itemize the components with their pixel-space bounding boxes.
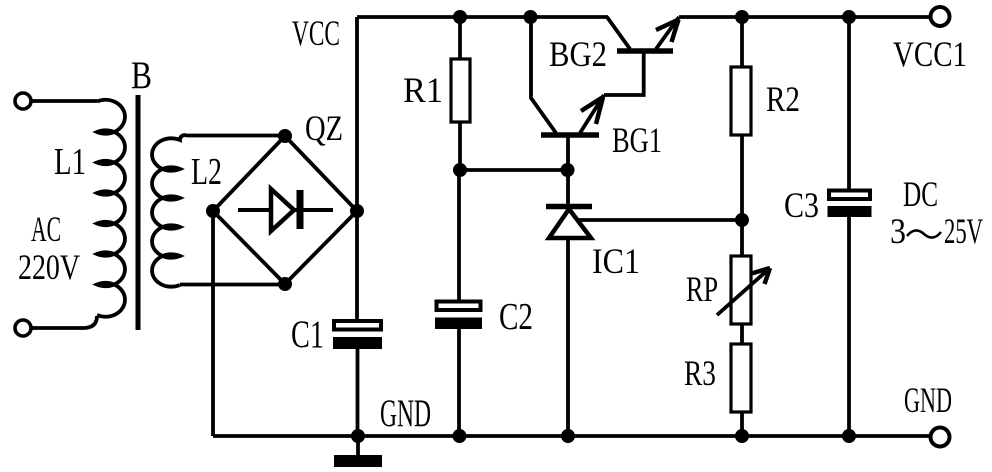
wire C3 to ground rail [847,217,851,436]
node VCC rail BG1 collector [524,10,538,24]
wire AC top lead [32,99,98,103]
ground symbol stub [356,436,360,455]
capacitor C1 top plate [334,321,381,330]
svg-text:R2: R2 [766,79,800,119]
resistor R1 [451,59,470,122]
node VCC1 rail R2 [735,10,749,24]
node R1 bottom [453,163,467,177]
terminal VCC1 [931,7,950,26]
inductor L2 secondary winding [152,135,186,287]
transistor BG1 base bar [541,132,599,138]
resistor R3 [731,344,751,412]
node ground C1 [351,429,365,443]
node ground R3 [735,429,749,443]
wire bridge left vertex to ground rail [211,211,215,436]
node BG1 base [561,163,575,177]
transformer core B [136,95,141,330]
svg-text:R1: R1 [403,70,443,110]
svg-text:RP: RP [686,269,718,309]
svg-text:DC: DC [903,174,938,214]
node ground C2 [453,429,467,443]
wire RP to R3 [740,324,744,344]
svg-text:VCC1: VCC1 [893,34,967,74]
svg-text:VCC: VCC [292,13,340,53]
inductor L1 primary winding [97,100,125,317]
terminal GND [931,428,950,447]
wire L2 top to bridge [186,134,285,138]
node VCC rail R1 [453,10,467,24]
capacitor C3 top plate [829,191,870,200]
node bridge top [278,129,292,143]
bridge rectifier QZ diamond [213,136,357,284]
svg-text:B: B [131,54,152,97]
wire bridge right vertex up to VCC rail corner [355,17,359,211]
svg-text:BG2: BG2 [549,34,607,74]
node R2 RP junction [735,213,749,227]
svg-text:L2: L2 [191,151,222,193]
wire R1 bottom lead [458,122,462,170]
transistor BG2 base bar [617,48,673,54]
wire C2 to ground rail [457,329,461,436]
capacitor C3 bottom plate [828,206,872,217]
transistor BG2 emitter arrowhead [656,20,679,43]
wire R1 top lead [458,17,462,59]
diode inside bridge: anode triangle [271,189,294,231]
node ground IC1 [561,429,575,443]
svg-text:C3: C3 [784,185,819,225]
transistor BG1 emitter with arrow [580,95,604,133]
transistor BG2 emitter with arrow [656,17,679,49]
wire IC1 anode node to RP node [569,218,742,222]
diode inside bridge: cathode bar [297,190,304,229]
wire node R1 to BG1 base [460,168,568,172]
wire VCC top rail left segment [357,15,608,19]
transistor BG1 collector lead from VCC rail [531,17,556,133]
svg-text:C2: C2 [499,296,533,338]
svg-text:GND: GND [904,380,952,420]
wire R2 top lead [740,17,744,67]
wire IC1 to ground rail [566,239,570,436]
wire C1 to ground rail [356,349,360,436]
node VCC1 rail C3 [842,10,856,24]
svg-text:3: 3 [890,211,906,251]
capacitor C2 bottom plate [435,318,482,330]
node bridge right [350,204,364,218]
svg-text:L1: L1 [54,141,86,183]
ground symbol bar [334,455,382,467]
wire AC bottom lead [32,316,98,328]
transistor BG1 emitter arrowhead [581,97,603,124]
node bridge bottom [278,277,292,291]
transistor BG2 collector from VCC rail [607,17,630,49]
wire R3 bottom lead [740,412,744,436]
resistor R2 [731,67,751,135]
svg-text:220V: 220V [18,247,80,287]
potentiometer RP arrowhead [752,268,771,284]
wire BG1 base down to IC1 [566,137,570,204]
capacitor C1 bottom plate [333,337,382,349]
svg-text:BG1: BG1 [612,120,662,160]
svg-text:GND: GND [380,392,431,435]
diode inside bridge: lead line [238,208,333,212]
svg-text:AC: AC [31,209,61,249]
diode IC1 cathode bar [546,204,592,210]
wire R2 bottom lead to node [740,135,744,256]
wire BG1 emitter to BG2 base [604,53,644,95]
wire VCC1 top rail right segment [679,15,929,19]
wire GND bottom rail [213,434,929,438]
terminal AC top-left [15,93,31,109]
svg-text:C1: C1 [291,313,324,356]
capacitor C2 top plate [437,302,481,311]
svg-text:IC1: IC1 [592,241,640,281]
svg-text:25V: 25V [944,211,983,251]
potentiometer RP arrow [717,268,770,315]
svg-text:QZ: QZ [305,108,343,148]
node bridge left [206,204,220,218]
node ground C3 [842,429,856,443]
potentiometer RP body [731,256,751,324]
terminal AC bottom-left [15,320,31,336]
wire L2 bottom to bridge [180,283,285,287]
wire C3 top lead [847,17,851,189]
diode IC1 anode triangle [549,209,591,238]
svg-text:R3: R3 [684,353,716,393]
wire R1 node down to C2 [457,170,461,300]
wire bridge right vertex down to C1 [355,211,359,320]
